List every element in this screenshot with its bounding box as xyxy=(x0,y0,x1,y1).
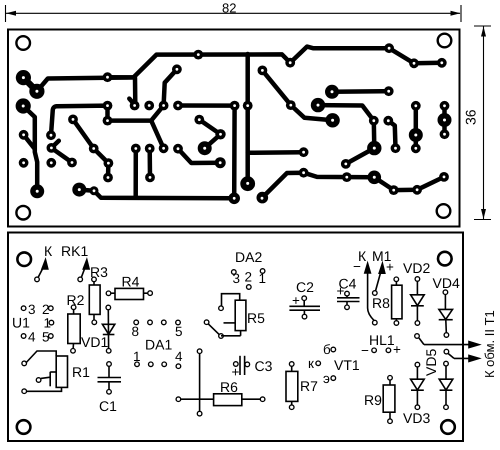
svg-text:к: к xyxy=(308,356,314,371)
svg-text:3: 3 xyxy=(28,302,36,317)
svg-text:+: + xyxy=(386,260,394,275)
svg-text:R9: R9 xyxy=(364,392,382,408)
svg-text:5: 5 xyxy=(42,330,50,345)
svg-text:2: 2 xyxy=(245,270,253,285)
svg-text:б: б xyxy=(323,342,331,357)
svg-text:R1: R1 xyxy=(72,364,90,380)
svg-text:R7: R7 xyxy=(300,378,318,394)
svg-text:VD4: VD4 xyxy=(433,275,460,291)
svg-text:VD5: VD5 xyxy=(423,349,439,376)
svg-text:HL1: HL1 xyxy=(369,332,395,348)
svg-text:R6: R6 xyxy=(220,379,238,395)
svg-text:К обм. II Т1: К обм. II Т1 xyxy=(482,310,497,378)
svg-text:1: 1 xyxy=(133,349,141,364)
svg-text:82: 82 xyxy=(222,1,236,16)
svg-text:э: э xyxy=(323,371,330,386)
svg-text:4: 4 xyxy=(175,349,183,364)
svg-text:+: + xyxy=(232,365,240,380)
svg-text:5: 5 xyxy=(175,324,183,339)
svg-text:−: − xyxy=(353,259,361,274)
svg-text:R3: R3 xyxy=(90,264,108,280)
svg-text:R4: R4 xyxy=(122,274,140,290)
svg-text:36: 36 xyxy=(463,109,479,125)
svg-text:4: 4 xyxy=(28,330,36,345)
svg-text:DA2: DA2 xyxy=(235,249,262,265)
svg-text:8: 8 xyxy=(132,324,140,339)
svg-text:3: 3 xyxy=(233,271,241,286)
svg-text:DA1: DA1 xyxy=(145,337,172,353)
svg-text:R2: R2 xyxy=(67,292,85,308)
svg-text:VD1: VD1 xyxy=(81,334,108,350)
svg-text:R8: R8 xyxy=(372,295,390,311)
svg-text:R5: R5 xyxy=(247,310,265,326)
svg-text:VT1: VT1 xyxy=(334,357,360,373)
svg-text:+: + xyxy=(337,284,345,299)
svg-text:К: К xyxy=(44,243,53,259)
svg-text:C3: C3 xyxy=(255,358,273,374)
svg-text:+: + xyxy=(393,342,401,357)
svg-text:VD2: VD2 xyxy=(403,260,430,276)
svg-text:−: − xyxy=(361,343,369,358)
svg-text:RK1: RK1 xyxy=(61,243,88,259)
svg-text:1: 1 xyxy=(44,316,52,331)
svg-text:1: 1 xyxy=(259,271,267,286)
svg-text:C1: C1 xyxy=(99,398,117,414)
svg-text:+: + xyxy=(292,293,300,308)
svg-text:VD3: VD3 xyxy=(403,410,430,426)
